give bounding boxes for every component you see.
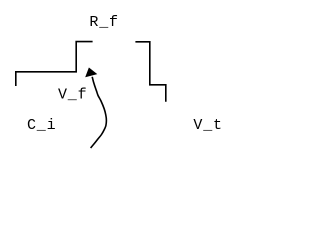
wire left step (C_i node trace) bbox=[16, 42, 93, 86]
arrowhead bbox=[86, 68, 96, 76]
svg-text:V_t: V_t bbox=[193, 117, 222, 134]
svg-text:R_f: R_f bbox=[89, 14, 118, 31]
wire right step (V_t node trace) bbox=[135, 42, 165, 102]
arrow shaft bbox=[91, 77, 107, 148]
svg-text:C_i: C_i bbox=[27, 117, 56, 134]
svg-text:V_f: V_f bbox=[58, 86, 87, 103]
